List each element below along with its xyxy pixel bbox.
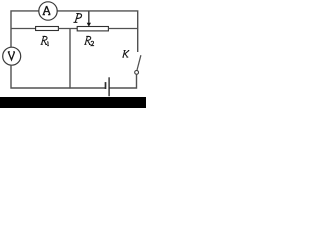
ammeter A1 [39, 2, 57, 20]
label P (italic) [73, 14, 81, 23]
slider P arrow stem (from top wire) [88, 11, 90, 24]
switch K lever [137, 55, 141, 70]
wire: second wire right segment (R2 to right vertical) [108, 28, 137, 30]
switch K pivot circle [135, 71, 139, 75]
resistor R1 [36, 27, 59, 31]
battery: long bar (positive plate) [108, 77, 110, 96]
wire: top wire right segment + top-right corner + right vertical down to switch stub [57, 11, 138, 52]
voltmeter V1 [3, 47, 21, 65]
wire: second wire left segment [11, 28, 36, 30]
label K (italic) [122, 50, 129, 57]
voltmeter letter V [8, 52, 15, 60]
rheostat R2 box [77, 27, 108, 31]
wire: left vertical upper segment (junction to voltmeter) [10, 29, 12, 48]
wire: switch to bottom-right corner + bottom wire to battery [109, 74, 136, 88]
battery: short bar (negative plate) [105, 82, 107, 89]
wire: left vertical lower segment + bottom-left corner + bottom wire to battery [11, 65, 105, 88]
label R2 [84, 36, 94, 45]
black strip at bottom [0, 97, 146, 108]
ammeter letter A [43, 6, 51, 15]
slider P arrowhead [87, 23, 91, 27]
wire: second wire middle segment (R1 to R2) [58, 28, 77, 30]
wire: middle vertical branch (junction to bottom wire) [69, 29, 71, 89]
label R1 [41, 36, 49, 45]
wire: top wire left segment + top-left corner + left vertical to second wire [11, 11, 39, 29]
